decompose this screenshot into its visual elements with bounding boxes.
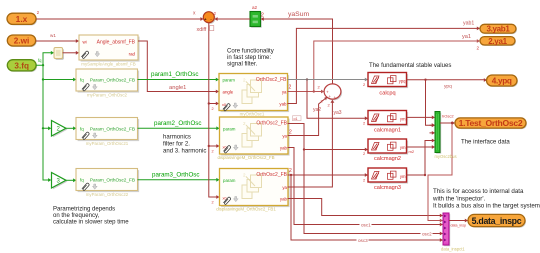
svg-text:3.fq: 3.fq [14,61,29,70]
svg-text:osc3: osc3 [358,238,368,243]
subsystem OrthOsc2_FB 1 [219,74,292,117]
svg-text:fq: fq [38,58,42,63]
wire gain3 to Param block 3 [66,178,76,182]
svg-text:and 3. harmonic: and 3. harmonic [163,148,206,154]
svg-text:2: 2 [363,121,366,126]
rate transition block [54,48,64,60]
svg-text:OrthOsc2_FB: OrthOsc2_FB [256,172,287,178]
wire rate transition to Angle block input 2 [63,51,79,55]
svg-text:hOsc2: hOsc2 [442,113,454,118]
annotation harmonics [163,134,206,154]
svg-text:with the 'inspector'.: with the 'inspector'. [432,195,486,202]
svg-text:o1: o1 [294,117,298,121]
out port 2.ya1 [480,37,516,46]
svg-text:OrthOsc2_FB: OrthOsc2_FB [256,121,287,127]
svg-text:fq: fq [80,126,84,131]
function block calcpq [368,73,408,97]
svg-text:param2_OrthOsc: param2_OrthOsc [154,120,201,127]
svg-text:2.ya1: 2.ya1 [488,37,507,46]
svg-text:on the frequency,: on the frequency, [53,213,100,219]
svg-text:calcpq: calcpq [379,91,395,97]
svg-text:myParam_OrthOsc22: myParam_OrthOsc22 [86,192,129,197]
svg-text:2: 2 [214,11,217,16]
svg-text:2: 2 [212,150,214,154]
svg-text:2: 2 [212,201,214,205]
svg-text:2: 2 [289,168,292,174]
annotation fundamental stable values [369,63,451,69]
svg-text:param: param [223,178,236,183]
svg-text:1.Test_OrthOsc2: 1.Test_OrthOsc2 [459,118,523,128]
svg-text:ya: ya [282,89,287,94]
wire yaSum (feedback circle to a2) [261,11,333,85]
svg-text:yab: yab [280,196,288,201]
svg-text:2: 2 [318,85,321,90]
svg-text:param3_OrthOsc: param3_OrthOsc [152,171,199,178]
svg-text:yaSum: yaSum [288,11,309,18]
svg-text:2: 2 [363,151,366,156]
svg-text:ym: ym [400,145,406,150]
out port 1.Test_OrthOsc2 [455,118,527,129]
svg-text:ya1: ya1 [462,34,471,40]
annotation parametrizing [53,206,129,225]
svg-text:mySampleAngle_absmf_FB: mySampleAngle_absmf_FB [81,62,135,67]
out port 5.data_inspc [468,214,526,227]
out port 4.ypq [487,75,519,87]
wire a2 to sum [214,17,250,21]
wire gain2 to Param block 2 [66,126,76,130]
wire w1 (2.wi to Angle block) [36,33,79,43]
function block calcmagn1 [368,111,408,134]
svg-text:2: 2 [477,46,480,51]
svg-text:It builds a bus also in the ta: It builds a bus also in the target syste… [433,203,540,210]
svg-text:angle: angle [223,90,234,95]
svg-text:filter for 2.: filter for 2. [163,141,190,147]
svg-text:wi: wi [83,40,87,45]
wire x (1.x to sum) [36,10,204,21]
svg-text:2: 2 [37,10,40,15]
gain block 3 [52,173,68,190]
svg-text:yab: yab [280,145,288,150]
svg-text:Param_OrthOsc2_FB: Param_OrthOsc2_FB [90,126,135,131]
input port 2.wi [7,35,36,47]
svg-text:osc2: osc2 [422,231,432,236]
function block calcmagn3 [368,168,408,191]
subsystem Param_OrthOsc2_FB 2 [76,118,139,147]
svg-text:myParam_OrthOsc2: myParam_OrthOsc2 [87,93,128,98]
subsystem Param_OrthOsc2_FB 3 [76,169,139,198]
function block calcmagn2 [368,139,408,162]
svg-text:Core functionality: Core functionality [227,48,275,54]
svg-text:2: 2 [243,173,246,178]
svg-text:yab: yab [279,101,287,106]
wire block2 yab to pink bus (osc1) [288,148,444,228]
svg-text:signal filter.: signal filter. [227,61,258,67]
wire param2_OrthOsc [138,120,220,130]
bus creator input stub [430,123,436,135]
wire block1 bus output to calcpq and calcmagn1 [288,78,369,126]
svg-text:fq: fq [80,177,84,182]
svg-text:calcmagn3: calcmagn3 [374,185,401,191]
svg-text:calculate in slower step time: calculate in slower step time [53,219,129,225]
annotation interface data [461,140,510,146]
svg-text:calcmagn1: calcmagn1 [374,128,401,134]
svg-text:osc1: osc1 [361,222,371,227]
sum block yaSum (round, ya1+ya2+ya3) [324,84,342,100]
wire ya1 (block1 ya to sum circle and out port 2.ya1) [288,34,481,93]
bus creator myOsc2bus [434,112,456,160]
svg-text:ypq: ypq [399,79,406,84]
wire calcmagn2 to bus creator [363,145,435,156]
svg-text:ya3: ya3 [334,110,342,116]
svg-text:myOsc2bus: myOsc2bus [434,154,456,159]
svg-text:2: 2 [328,103,331,108]
svg-text:Param_OrthOsc2_FB: Param_OrthOsc2_FB [90,177,135,182]
wire ypq (calcpq to out port 4.ypq and bus) [407,78,488,127]
svg-text:ya2: ya2 [313,107,321,113]
svg-text:ym: ym [400,174,406,179]
svg-text:Angle_absmf_FB: Angle_absmf_FB [97,40,136,46]
svg-text:in fast step time:: in fast step time: [227,55,271,61]
svg-text:displasvingeM_OrthOsc2_FB: displasvingeM_OrthOsc2_FB [217,155,274,160]
svg-text:2: 2 [363,82,366,87]
svg-text:1.x: 1.x [16,14,28,24]
svg-text:param: param [223,78,236,83]
svg-text:2: 2 [212,107,214,111]
svg-text:2: 2 [243,78,246,83]
svg-text:This is for access to internal: This is for access to internal data [433,188,524,195]
gain block a2 [250,5,264,28]
svg-text:displasvingeM_OrthOsc2_FB1: displasvingeM_OrthOsc2_FB1 [216,207,276,212]
subsystem OrthOsc2_FB 3 [216,168,292,211]
wire xdiff (sum to x0 inputs) [197,11,220,205]
wire calcmagn3 to bus creator [407,139,436,177]
svg-text:myOrthOsc1: myOrthOsc1 [240,112,265,117]
svg-text:ym: ym [400,117,406,122]
svg-text:ypq: ypq [444,85,452,90]
svg-text:4.ypq: 4.ypq [492,77,512,86]
wire ya3 (block3 ya to sum circle) [288,100,342,187]
wire block2 bus output to calcmagn2 and pink bus (osc2) [288,124,444,237]
wire yab1 (block1 yab to out port 3.yab1) [288,21,481,104]
input port 1.x [7,13,37,25]
svg-text:2: 2 [289,130,292,136]
svg-text:2: 2 [289,85,292,91]
svg-text:2: 2 [243,121,246,126]
subsystem Angle_absmf_FB [79,35,140,67]
input port 3.fq [7,60,37,72]
svg-text:The interface data: The interface data [461,140,510,146]
bus creator data_inspct (pink) [441,213,465,252]
svg-text:param: param [223,126,236,131]
svg-text:ya: ya [282,133,287,138]
svg-text:yab1: yab1 [463,21,474,27]
svg-text:x: x [193,11,196,17]
annotation inspector [432,188,540,209]
wire param3_OrthOsc [138,171,220,181]
svg-text:angle1: angle1 [169,85,186,91]
svg-text:OrthOsc2_FB: OrthOsc2_FB [256,77,287,83]
svg-text:rad: rad [129,52,136,57]
wire param1_OrthOsc [138,71,220,81]
gain block 2 [52,121,68,138]
svg-text:m2: m2 [409,149,415,154]
svg-text:data_insp: data_insp [451,223,467,227]
wire pink bus to out port 5.data_inspc [449,219,468,228]
sum block (x - a2*yaSum) [203,12,215,24]
svg-text:w1: w1 [50,33,56,38]
svg-text:Parametrizing depends: Parametrizing depends [53,206,115,212]
svg-text:ya: ya [282,185,287,190]
wire ya2 (block2 ya to sum circle) [288,97,328,136]
wire angle1 (Angle block to OrthOsc2 angle input) [138,41,219,93]
wire calcmagn1 to bus creator [407,116,436,120]
annotation core functionality [227,48,275,67]
subsystem Param_OrthOsc2_FB 1 [76,69,139,98]
svg-text:The fundamental stable values: The fundamental stable values [369,63,451,69]
svg-text:5.data_inspc: 5.data_inspc [472,216,522,226]
svg-text:data_inspct1: data_inspct1 [441,247,465,252]
svg-text:xdiff: xdiff [197,27,207,33]
wire block3 yab to pink bus [288,199,444,218]
svg-text:3.yab1: 3.yab1 [486,25,510,34]
svg-text:a2: a2 [252,5,258,10]
svg-text:harmonics: harmonics [163,134,191,140]
wire bus output branch to pink bus [428,122,453,223]
svg-text:param1_OrthOsc: param1_OrthOsc [151,71,198,78]
svg-text:fq: fq [80,78,84,83]
svg-text:Param_OrthOsc2_FB: Param_OrthOsc2_FB [90,78,135,83]
svg-text:2.wi: 2.wi [14,37,29,46]
svg-text:calcmagn2: calcmagn2 [374,156,401,162]
wire bus creator to out port 1.Test_OrthOsc2 [440,113,455,125]
wire block3 bus output to calcmagn3 and pink bus (osc3) [288,173,444,243]
subsystem OrthOsc2_FB 2 [217,117,292,160]
out port 3.yab1 [480,24,517,34]
svg-text:myParam_OrthOsc21: myParam_OrthOsc21 [86,141,129,146]
wire fq (3.fq trunk with branches) [36,51,76,182]
svg-text:2: 2 [363,177,366,182]
